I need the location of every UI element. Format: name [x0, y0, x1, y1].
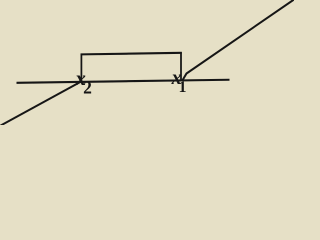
svg-text:2: 2	[83, 77, 92, 97]
svg-text:1: 1	[179, 79, 187, 96]
